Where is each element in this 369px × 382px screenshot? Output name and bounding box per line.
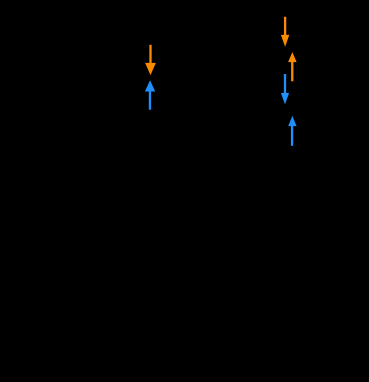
current arrow I6 (electron flow, blue, pointing up out of node B) [288, 116, 296, 146]
current arrow I2 (electron flow, blue, pointing up into node A) [145, 80, 155, 110]
current arrow I1 (conventional current, orange, pointing down into node A) [145, 45, 156, 75]
current arrow I3 (conventional current, orange, pointing down into node B) [281, 17, 289, 47]
current arrow I5 (electron flow, blue, pointing down into node B) [281, 74, 289, 104]
current arrow I4 (conventional current, orange, pointing up out of node B) [288, 52, 297, 81]
